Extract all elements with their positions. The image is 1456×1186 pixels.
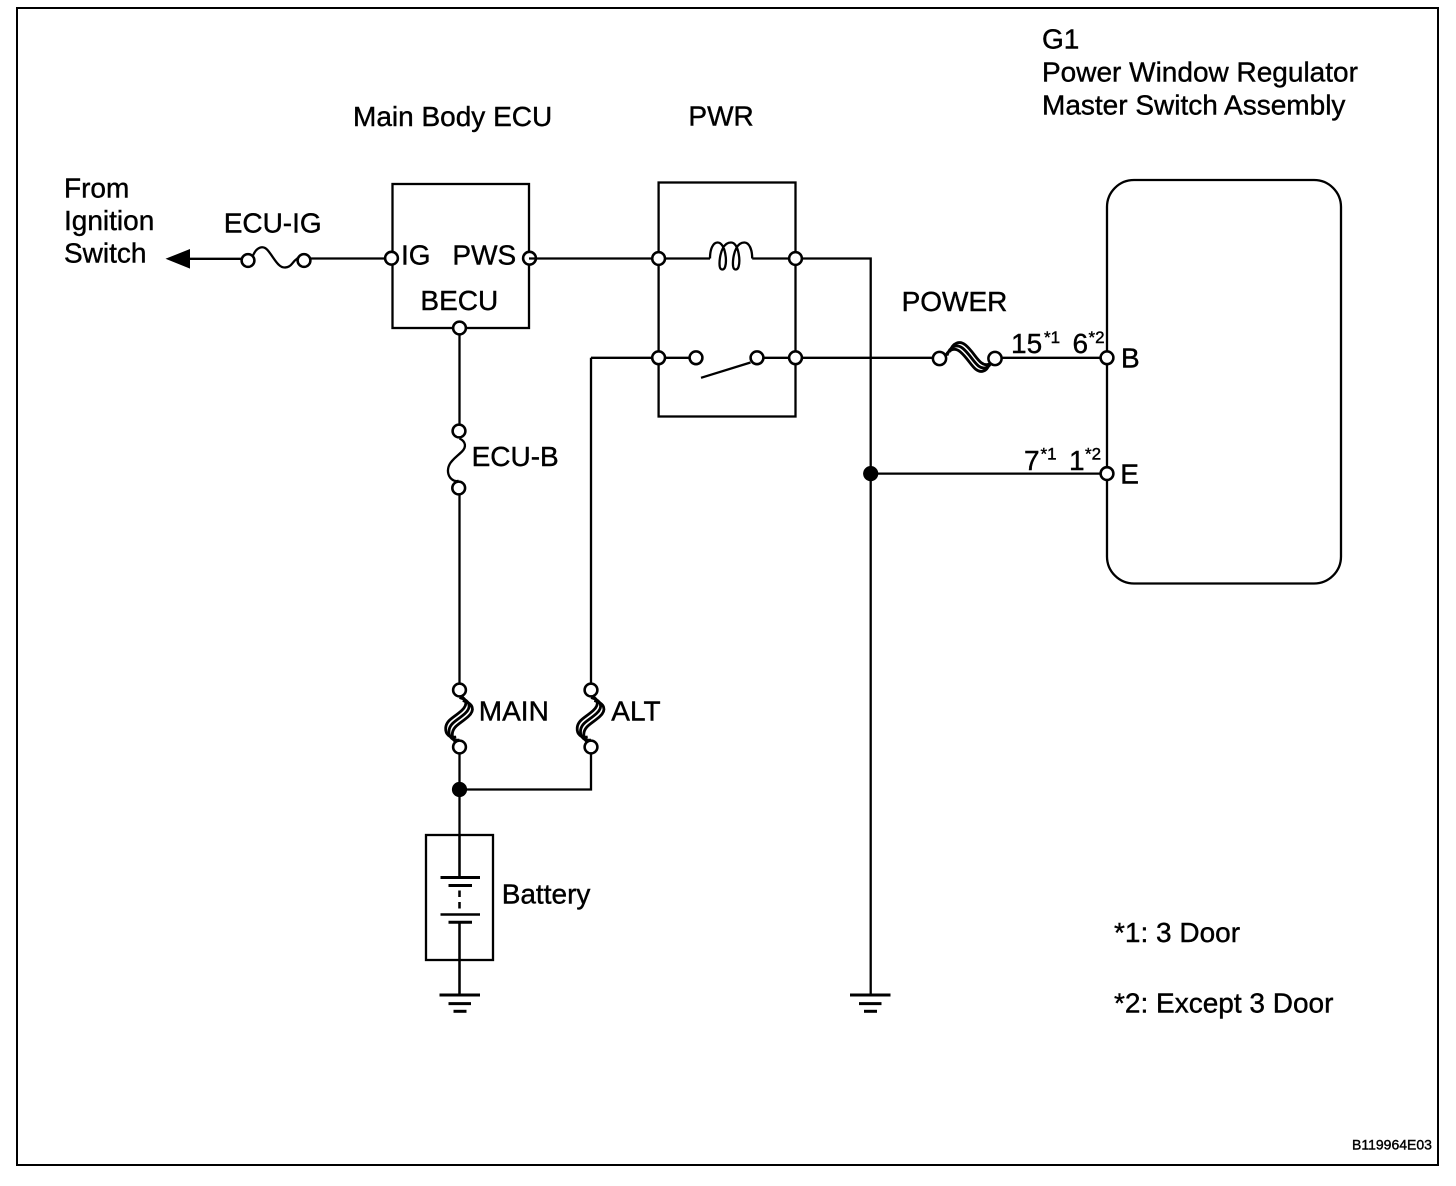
ground right (relay/E line) <box>850 995 891 1011</box>
label: From Ignition Switch <box>64 172 154 268</box>
fusible link ALT terminal circles <box>585 684 598 697</box>
svg-text:*2: Except 3 Door: *2: Except 3 Door <box>1114 988 1333 1019</box>
svg-text:PWR: PWR <box>688 100 753 131</box>
wire: relay coil row right <box>752 257 795 259</box>
wire: MAIN link to junction <box>458 754 460 835</box>
svg-text:*1: *1 <box>1044 328 1060 347</box>
svg-text:G1: G1 <box>1042 23 1079 54</box>
svg-text:B119964E03: B119964E03 <box>1352 1137 1432 1153</box>
wire: E row from ground line to E pin <box>871 472 1107 474</box>
svg-text:B: B <box>1121 343 1140 374</box>
wire: PWS to PWR relay <box>529 257 659 259</box>
svg-text:MAIN: MAIN <box>479 695 549 726</box>
battery plate long 1 <box>441 876 481 879</box>
svg-text:Power Window Regulator: Power Window Regulator <box>1042 56 1358 87</box>
battery plate long 2 <box>441 913 481 916</box>
svg-text:IG: IG <box>401 240 431 271</box>
pin IG terminal circle <box>385 252 398 265</box>
junction node battery/MAIN/ALT <box>452 782 467 797</box>
wire: POWER fuse to B pin <box>1002 357 1107 359</box>
battery plate short 2 <box>449 921 473 924</box>
wire: ECU-B fuse down to MAIN link <box>458 495 460 684</box>
svg-text:E: E <box>1120 458 1139 489</box>
fusible link MAIN (wavy band) <box>446 695 473 744</box>
battery plate short 1 <box>449 884 473 887</box>
Main Body ECU box <box>393 184 530 328</box>
fusible link POWER terminal circles <box>933 352 946 365</box>
battery cell dashes <box>458 891 461 898</box>
svg-text:BECU: BECU <box>420 285 498 316</box>
relay coil <box>710 243 752 270</box>
label: pin number 15*1 6*2 <box>1011 328 1105 359</box>
fuse ECU-IG squiggle <box>253 247 298 267</box>
pin B terminal circle <box>1101 351 1114 364</box>
junction node on ground line at E row <box>863 466 878 481</box>
svg-text:Ignition: Ignition <box>64 205 154 236</box>
svg-text:ECU-B: ECU-B <box>472 441 559 472</box>
fusible link MAIN terminal circles <box>453 684 466 697</box>
wire: relay switch row <box>591 357 696 359</box>
fusible link POWER (wavy band) <box>944 343 994 372</box>
svg-text:Battery: Battery <box>502 879 591 910</box>
fuse ECU-B squiggle <box>448 439 465 482</box>
svg-text:POWER: POWER <box>902 286 1008 317</box>
svg-text:Switch: Switch <box>64 237 146 268</box>
label: G1 Power Window Regulator Master Switch Assembly <box>1042 23 1358 120</box>
svg-text:Main Body ECU: Main Body ECU <box>353 101 552 132</box>
relay switch terminal circles <box>652 351 665 364</box>
relay coil terminal circles <box>652 252 665 265</box>
svg-text:ALT: ALT <box>611 695 660 726</box>
PWR relay box <box>659 183 796 417</box>
battery box <box>426 835 493 960</box>
fusible link ALT (wavy band) <box>577 695 604 744</box>
svg-text:15: 15 <box>1011 328 1042 359</box>
svg-text:ECU-IG: ECU-IG <box>224 208 322 239</box>
svg-text:PWS: PWS <box>452 240 516 271</box>
ground under battery <box>440 995 481 1011</box>
relay switch arm <box>701 363 751 378</box>
pin BECU terminal circle <box>453 322 466 335</box>
battery internal wire top <box>458 835 461 878</box>
wire: relay output to ground line (corner) <box>796 259 871 995</box>
pin E terminal circle <box>1101 467 1114 480</box>
wire: ALT link to junction row <box>460 754 592 790</box>
master switch assembly box G1 <box>1107 180 1341 584</box>
fuse ECU-B terminal circles <box>453 425 466 438</box>
label: pin number 7*1 1*2 <box>1024 445 1101 476</box>
svg-text:1: 1 <box>1069 445 1085 476</box>
wire: relay coil row left <box>659 257 710 259</box>
svg-text:Master Switch Assembly: Master Switch Assembly <box>1042 89 1345 120</box>
pin PWS terminal circle <box>523 252 536 265</box>
svg-text:*2: *2 <box>1085 445 1101 464</box>
wire: fuse to IG pin <box>310 257 390 259</box>
fuse ECU-IG terminal circles <box>242 254 255 267</box>
svg-text:*1: 3 Door: *1: 3 Door <box>1114 917 1240 948</box>
svg-text:7: 7 <box>1024 445 1040 476</box>
wire: down from switch row to ALT link <box>590 358 592 683</box>
svg-text:*1: *1 <box>1041 445 1057 464</box>
wire: BECU down to ECU-B fuse <box>458 328 460 425</box>
wire: arrow to ECU-IG fuse <box>186 258 243 260</box>
svg-text:*2: *2 <box>1089 328 1105 347</box>
battery internal wire bottom, to ground <box>458 922 461 994</box>
svg-text:From: From <box>64 172 129 203</box>
arrowhead to ignition switch <box>166 249 191 269</box>
svg-text:6: 6 <box>1073 328 1089 359</box>
